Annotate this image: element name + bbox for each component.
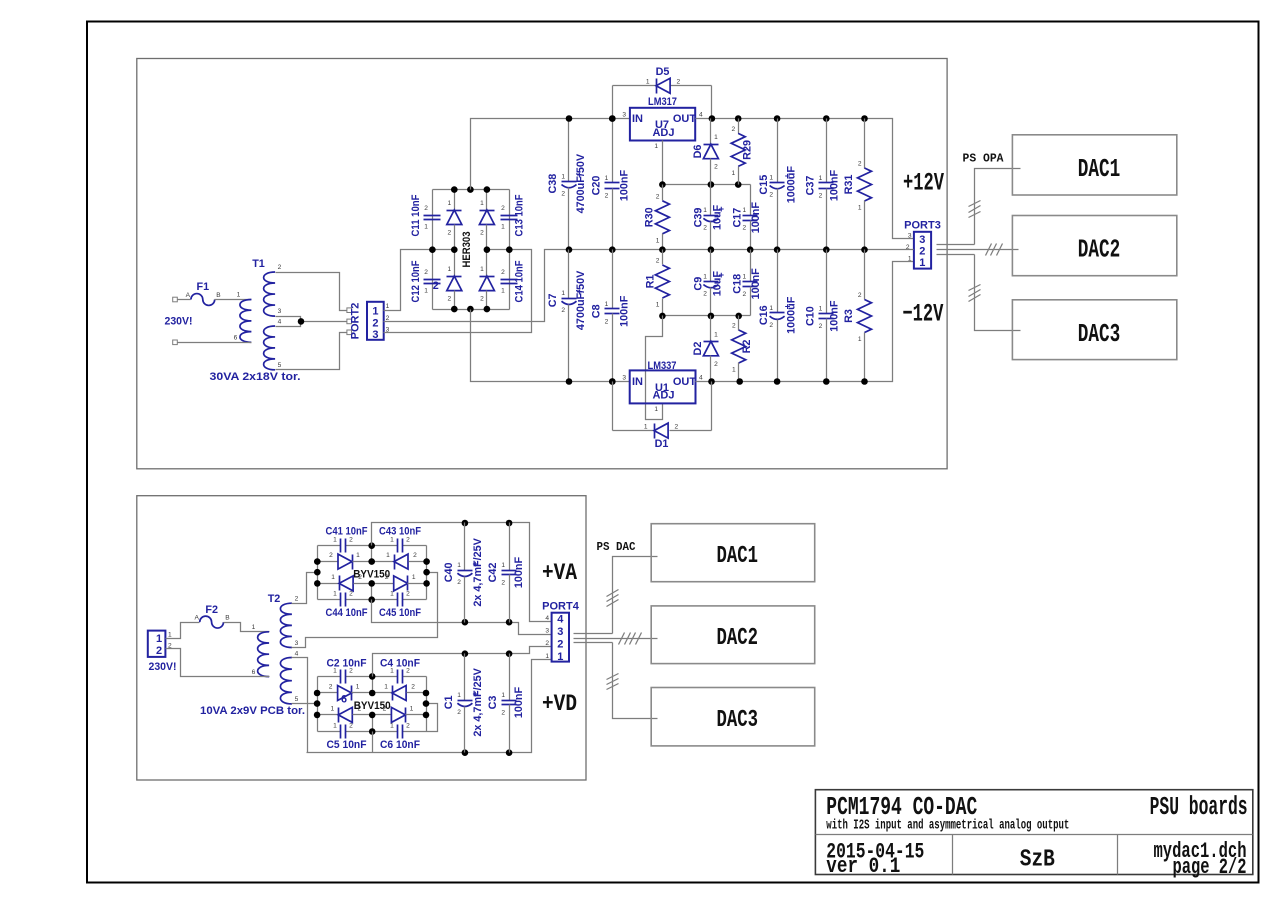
hatch DAC2 lower (619, 633, 625, 645)
svg-text:D1: D1 (655, 438, 669, 450)
svg-text:1: 1 (480, 266, 484, 273)
svg-text:OUT: OUT (673, 376, 697, 388)
diode bridge D lower-left (447, 250, 462, 310)
svg-text:1: 1 (501, 288, 505, 295)
svg-text:1: 1 (390, 723, 394, 730)
svg-text:C14 10nF: C14 10nF (514, 260, 526, 302)
capacitor C37 (804, 119, 840, 250)
svg-text:DAC3: DAC3 (1078, 320, 1121, 349)
svg-text:2: 2 (457, 709, 461, 716)
svg-text:+VA: +VA (542, 560, 577, 586)
svg-text:D2: D2 (692, 342, 704, 356)
U7 OUT rail +12V (696, 119, 914, 239)
capacitor C12 (424, 269, 441, 295)
bridge right edge wire (509, 190, 511, 310)
capacitor C6 (390, 723, 410, 739)
bridge HER303 bottom edge wire (433, 309, 510, 311)
svg-text:2: 2 (156, 645, 162, 657)
svg-text:BYV150: BYV150 (353, 569, 390, 581)
svg-text:1: 1 (561, 290, 565, 297)
junction +VD rail dots (462, 650, 469, 657)
svg-text:1: 1 (703, 207, 707, 214)
svg-text:C37: C37 (804, 176, 816, 196)
box DAC3 upper (1012, 300, 1176, 360)
svg-text:SzB: SzB (1020, 847, 1055, 874)
+VD rail (373, 647, 552, 677)
svg-text:3: 3 (295, 640, 299, 647)
svg-text:PORT3: PORT3 (904, 220, 941, 232)
svg-text:DAC1: DAC1 (1078, 155, 1121, 184)
svg-text:C11 10nF: C11 10nF (410, 194, 422, 236)
svg-text:1: 1 (356, 552, 360, 559)
diode D1 (613, 382, 712, 451)
connector 230V lower (148, 631, 172, 657)
svg-text:100nF: 100nF (750, 268, 762, 300)
svg-text:T1: T1 (252, 258, 265, 270)
svg-text:C13 10nF: C13 10nF (514, 194, 526, 236)
junction C20 bottom (609, 246, 616, 253)
svg-text:1: 1 (390, 537, 394, 544)
capacitor C17 (732, 202, 763, 250)
svg-text:1: 1 (156, 633, 162, 645)
bridge A center column (371, 546, 373, 562)
wire T1 pin2 to PORT2 pin1 (276, 273, 347, 311)
svg-text:1: 1 (424, 224, 428, 231)
svg-text:2: 2 (732, 323, 736, 330)
wire bridge- to bottom rail (471, 310, 630, 382)
svg-text:2: 2 (413, 552, 417, 559)
hatch DAC1 lower (607, 590, 619, 597)
wire T1 pin3/pin4 center tap to PORT2 pin2 (276, 317, 301, 327)
svg-text:10uF: 10uF (711, 204, 723, 230)
wire to DAC2 stub (1013, 249, 1019, 251)
hatch DAC3 branch (969, 285, 981, 291)
svg-text:100nF: 100nF (750, 202, 762, 234)
resistor R31 (843, 119, 872, 250)
svg-text:R31: R31 (843, 175, 855, 195)
svg-text:1: 1 (237, 292, 241, 299)
svg-text:1: 1 (330, 705, 334, 712)
svg-text:1: 1 (605, 175, 609, 182)
svg-text:2: 2 (858, 292, 862, 299)
svg-text:3: 3 (557, 626, 563, 638)
svg-text:2: 2 (656, 258, 660, 265)
svg-text:DAC2: DAC2 (1078, 236, 1121, 265)
svg-text:A: A (194, 615, 199, 622)
svg-text:1: 1 (410, 705, 414, 712)
svg-text:2x 4,7mF/25V: 2x 4,7mF/25V (472, 537, 484, 606)
junction lower node (659, 313, 666, 320)
capacitor C4 (390, 667, 410, 683)
svg-text:2: 2 (561, 191, 565, 198)
regulator U7 LM317 (622, 96, 703, 150)
svg-text:1000uF: 1000uF (786, 166, 798, 204)
diode bridge A D1 row2-left (318, 552, 372, 569)
+VA rail (372, 523, 552, 622)
svg-text:4: 4 (557, 614, 564, 626)
svg-text:with I2S input and asymmetrica: with I2S input and asymmetrical analog o… (826, 819, 1069, 834)
svg-text:HER303: HER303 (461, 232, 473, 268)
capacitor C42 (487, 523, 525, 623)
capacitor C15 (758, 119, 798, 250)
hatch DAC3 lower (607, 674, 619, 680)
svg-text:IN: IN (632, 113, 643, 125)
svg-text:1: 1 (501, 224, 505, 231)
svg-text:2: 2 (605, 318, 609, 325)
svg-text:1: 1 (714, 331, 718, 338)
0V rail (569, 249, 909, 251)
junction bottom rail dots (708, 378, 715, 385)
svg-text:2: 2 (557, 639, 563, 651)
capacitor C9 (692, 250, 724, 316)
svg-text:DAC2: DAC2 (717, 625, 759, 652)
svg-text:2: 2 (703, 224, 707, 231)
svg-text:1: 1 (447, 266, 451, 273)
junction C7 bottom (566, 378, 573, 385)
svg-text:100nF: 100nF (828, 170, 840, 202)
svg-text:10uF: 10uF (711, 271, 723, 297)
diode bridge A D2 row2-right (372, 552, 427, 569)
svg-text:C44 10nF: C44 10nF (326, 607, 368, 619)
svg-text:C43 10nF: C43 10nF (379, 526, 421, 538)
bridge left edge wire (432, 190, 434, 310)
svg-text:2: 2 (769, 322, 773, 329)
svg-text:1000uF: 1000uF (786, 296, 798, 334)
svg-text:−12V: −12V (902, 300, 943, 329)
svg-text:IN: IN (632, 376, 643, 388)
svg-text:R3: R3 (843, 309, 855, 323)
U1 ADJ wire with jog (646, 316, 663, 420)
svg-text:page 2/2: page 2/2 (1173, 855, 1247, 880)
svg-text:PSU boards: PSU boards (1150, 793, 1248, 822)
title block (815, 790, 1252, 875)
wire T2 pin2 to bridge A AC-left (292, 573, 318, 604)
capacitor C39 (692, 185, 724, 250)
capacitor C14 (501, 269, 518, 295)
wire PORT2 pin3 to bridge AC-right (384, 250, 532, 333)
wire C17 top jog (750, 185, 752, 216)
svg-text:1: 1 (457, 562, 461, 569)
svg-text:F2: F2 (205, 604, 218, 616)
svg-text:2: 2 (406, 591, 410, 598)
svg-text:ver 0.1: ver 0.1 (826, 853, 900, 879)
svg-text:100nF: 100nF (513, 557, 525, 589)
svg-text:C42: C42 (487, 563, 499, 583)
capacitor C10 (804, 250, 840, 382)
fuse F1 (178, 281, 252, 305)
wire PORT2 pin2 to 0V rail (384, 250, 569, 322)
junction bridge bottom nodes (451, 306, 458, 313)
svg-text:2: 2 (433, 280, 439, 292)
bridge AC-left inner wire (433, 249, 455, 251)
fuse F2 (166, 604, 270, 639)
diode D2 (692, 316, 719, 382)
svg-text:2: 2 (769, 192, 773, 199)
wire C18 bottom jog (750, 293, 752, 316)
svg-text:6: 6 (252, 669, 256, 676)
svg-text:100nF: 100nF (618, 170, 630, 202)
svg-text:2: 2 (329, 684, 333, 691)
svg-text:100nF: 100nF (618, 295, 630, 327)
svg-text:2: 2 (858, 161, 862, 168)
svg-text:230V!: 230V! (149, 661, 177, 673)
svg-text:1: 1 (656, 302, 660, 309)
+VA ground rail (372, 600, 552, 635)
svg-text:3: 3 (278, 308, 282, 315)
svg-text:OUT: OUT (673, 113, 697, 125)
diode bridge A D3 row3-left (318, 574, 372, 591)
svg-text:R2: R2 (741, 340, 753, 354)
svg-text:2: 2 (501, 205, 505, 212)
capacitor C13 (501, 205, 518, 231)
svg-text:R1: R1 (644, 275, 656, 289)
wire T2 pin5 to bridge B AC-left (292, 703, 318, 705)
svg-text:30VA 2x18V tor.: 30VA 2x18V tor. (210, 371, 301, 383)
junction U7 IN rail (609, 115, 616, 122)
bridge A junction dots (368, 542, 375, 549)
capacitor C16 (758, 250, 798, 382)
svg-text:6: 6 (341, 694, 347, 706)
bridge HER303 top edge wire (433, 189, 510, 191)
svg-text:1: 1 (605, 301, 609, 308)
capacitor C38 (547, 119, 587, 250)
svg-text:C20: C20 (590, 176, 602, 196)
capacitor C45 (390, 591, 410, 607)
svg-text:2: 2 (480, 296, 484, 303)
svg-text:1: 1 (656, 237, 660, 244)
svg-text:1: 1 (480, 200, 484, 207)
wire T1 pin5 to PORT2 pin3 (276, 333, 347, 370)
svg-text:1: 1 (743, 207, 747, 214)
diode bridge A D4 row3-right (372, 574, 427, 591)
svg-text:C38: C38 (547, 174, 559, 194)
svg-text:1: 1 (646, 79, 650, 86)
svg-text:C1: C1 (443, 695, 455, 709)
bridge B center column (372, 677, 374, 693)
hatch DAC1 branch (969, 201, 981, 207)
svg-text:D6: D6 (692, 145, 704, 159)
svg-text:2: 2 (743, 225, 747, 232)
svg-text:T2: T2 (268, 593, 281, 605)
capacitor C20 (590, 119, 630, 250)
svg-text:1: 1 (384, 684, 388, 691)
svg-text:2: 2 (329, 552, 333, 559)
PORT3 cable bus (937, 244, 975, 246)
wire 0V to PORT3 pin2 (909, 249, 914, 251)
diode bridge B D1 row2-left (318, 684, 373, 701)
svg-text:2: 2 (406, 537, 410, 544)
svg-text:PORT4: PORT4 (542, 601, 580, 613)
capacitor C41 (333, 537, 353, 553)
svg-text:4700uF/50V: 4700uF/50V (575, 153, 587, 213)
junction bridge AC nodes (429, 246, 436, 253)
wire to DAC1 (975, 169, 1021, 245)
diode bridge D upper-left (447, 190, 462, 250)
diode bridge D lower-right (479, 250, 494, 310)
svg-text:2: 2 (278, 264, 282, 271)
svg-text:B: B (216, 292, 221, 299)
diode D6 (692, 119, 719, 185)
wire PORT2 pin1 to bridge AC-left (384, 250, 433, 311)
svg-text:1: 1 (732, 170, 736, 177)
svg-text:4700uF/50V: 4700uF/50V (575, 270, 587, 330)
svg-text:C4 10nF: C4 10nF (380, 658, 420, 670)
svg-text:1: 1 (501, 562, 505, 569)
svg-text:2: 2 (501, 269, 505, 276)
connector PORT2 (350, 302, 390, 341)
svg-text:R30: R30 (643, 207, 655, 227)
svg-text:3: 3 (622, 375, 626, 382)
resistor R3 (843, 250, 872, 382)
junction center tap (298, 318, 305, 325)
input terminal lower (173, 340, 178, 345)
svg-text:100nF: 100nF (828, 300, 840, 332)
svg-text:10VA 2x9V PCB tor.: 10VA 2x9V PCB tor. (200, 705, 305, 717)
svg-text:PCM1794 CO-DAC: PCM1794 CO-DAC (826, 793, 977, 822)
svg-text:2: 2 (424, 205, 428, 212)
svg-text:PS DAC: PS DAC (597, 541, 636, 554)
junction C20 top (609, 115, 616, 122)
wire bridge B AC-right jog (427, 704, 438, 732)
U7 ADJ wire (662, 141, 664, 185)
box DAC1 lower (651, 524, 815, 582)
wire bridge+ to IN rail (471, 119, 630, 190)
capacitor C1 (443, 654, 484, 753)
resistor R2 (732, 316, 754, 382)
wire to DAC3 lower (613, 643, 658, 719)
junction OUT dots (709, 115, 716, 122)
svg-text:C8: C8 (590, 304, 602, 318)
svg-text:2: 2 (457, 579, 461, 586)
+VD ground rail (372, 732, 374, 753)
svg-text:DAC3: DAC3 (717, 707, 759, 734)
svg-text:2: 2 (819, 323, 823, 330)
svg-text:1: 1 (390, 591, 394, 598)
connector PORT3 (904, 220, 941, 270)
upper PSU block boundary (137, 59, 947, 469)
capacitor C3 (487, 654, 525, 753)
svg-text:1: 1 (412, 574, 416, 581)
svg-text:2: 2 (406, 723, 410, 730)
svg-text:4: 4 (545, 615, 549, 622)
svg-text:1: 1 (858, 336, 862, 343)
svg-text:1: 1 (732, 367, 736, 374)
resistor R1 (644, 250, 669, 316)
resistor R30 (643, 185, 669, 250)
svg-text:DAC1: DAC1 (717, 543, 759, 570)
svg-text:1: 1 (372, 306, 378, 318)
svg-text:1: 1 (714, 134, 718, 141)
svg-text:1: 1 (457, 692, 461, 699)
svg-text:PS OPA: PS OPA (963, 153, 1004, 166)
svg-text:1: 1 (908, 256, 912, 263)
svg-text:3: 3 (545, 628, 549, 635)
transformer T1 (178, 258, 282, 370)
svg-text:C2 10nF: C2 10nF (327, 658, 367, 670)
svg-text:2: 2 (819, 193, 823, 200)
svg-text:2: 2 (714, 361, 718, 368)
diode bridge D upper-right (479, 190, 494, 250)
svg-text:C6 10nF: C6 10nF (380, 739, 420, 751)
svg-text:2: 2 (295, 596, 299, 603)
diode bridge B D3 row3-left (318, 705, 373, 722)
svg-text:2: 2 (605, 193, 609, 200)
svg-text:2: 2 (561, 307, 565, 314)
svg-text:2: 2 (501, 580, 505, 587)
svg-text:1: 1 (769, 174, 773, 181)
svg-text:1: 1 (386, 303, 390, 310)
svg-text:1: 1 (333, 537, 337, 544)
connector PORT4 (542, 601, 580, 664)
bridge A outline wires (317, 546, 319, 600)
svg-text:2: 2 (656, 193, 660, 200)
box DAC2 lower (651, 606, 815, 664)
junction bridge top nodes (451, 186, 458, 193)
box DAC2 upper (1012, 216, 1176, 276)
svg-text:A: A (186, 292, 191, 299)
svg-text:5: 5 (278, 362, 282, 369)
terminal PORT2 pin2 (347, 319, 352, 324)
svg-text:1: 1 (447, 200, 451, 207)
svg-text:1: 1 (356, 684, 360, 691)
svg-text:2: 2 (411, 684, 415, 691)
svg-text:C40: C40 (443, 562, 455, 582)
svg-text:+VD: +VD (542, 691, 577, 717)
capacitor C18 (732, 250, 763, 300)
svg-text:1: 1 (644, 424, 648, 431)
svg-text:ADJ: ADJ (652, 390, 674, 402)
wire T2 pin3 to bridge A AC-right (292, 573, 438, 648)
svg-text:B: B (225, 615, 230, 622)
svg-text:C10: C10 (804, 306, 816, 326)
svg-text:1: 1 (743, 273, 747, 280)
svg-text:2: 2 (743, 291, 747, 298)
upper ADJ node line (663, 184, 751, 186)
svg-text:4: 4 (295, 651, 299, 658)
svg-text:2: 2 (447, 230, 451, 237)
capacitor C8 (590, 250, 630, 382)
svg-text:BYV150: BYV150 (354, 700, 391, 712)
terminal PORT2 pin1 (347, 308, 352, 313)
wire to DAC3 (975, 255, 1021, 331)
svg-text:F1: F1 (196, 281, 209, 293)
lower PSU block boundary (137, 496, 586, 780)
svg-text:2: 2 (349, 591, 353, 598)
svg-text:1: 1 (252, 624, 256, 631)
svg-text:1: 1 (654, 143, 658, 150)
svg-text:LM317: LM317 (648, 96, 677, 108)
wire T2 pin4 down to bottom line (292, 658, 308, 753)
capacitor C2 (333, 667, 353, 683)
svg-text:2: 2 (424, 269, 428, 276)
svg-text:1: 1 (168, 631, 172, 638)
svg-text:2x 4,7mF/25V: 2x 4,7mF/25V (472, 667, 484, 736)
svg-text:1: 1 (919, 257, 925, 269)
svg-text:6: 6 (234, 335, 238, 342)
svg-text:1: 1 (331, 574, 335, 581)
junction +VD gnd dots (462, 749, 469, 756)
svg-text:2: 2 (545, 640, 549, 647)
svg-text:1: 1 (654, 406, 658, 413)
junction mid rail right dots (774, 246, 781, 253)
lower ADJ node line (663, 315, 751, 317)
capacitor C7 (547, 250, 587, 382)
junction C8 bottom (609, 378, 616, 385)
capacitor C40 (443, 523, 484, 623)
svg-text:2: 2 (501, 710, 505, 717)
svg-text:1: 1 (424, 288, 428, 295)
junction mid rail dots upper half (659, 246, 666, 253)
